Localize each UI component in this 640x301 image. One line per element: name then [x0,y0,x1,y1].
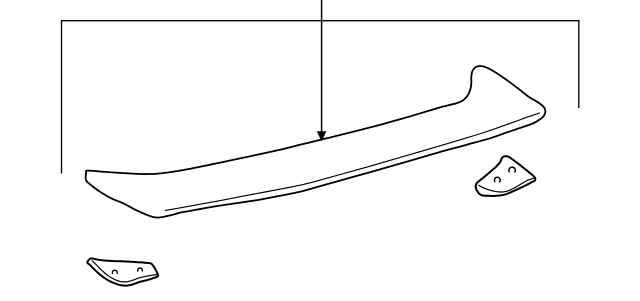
left pad thickness crease [92,261,157,282]
leader arrowhead [317,131,327,141]
leader arrow line [321,0,323,133]
right pad lower hole [494,177,500,182]
spoiler body S1 [86,66,546,218]
spoiler trailing-edge crease [166,113,540,210]
left pad right hole [138,268,143,271]
dimension bracket [62,21,579,174]
left mounting pad [87,258,158,285]
left pad left hole [112,270,117,273]
right pad upper hole [509,167,515,172]
right mounting pad [476,156,536,196]
right pad thickness crease [479,178,534,192]
